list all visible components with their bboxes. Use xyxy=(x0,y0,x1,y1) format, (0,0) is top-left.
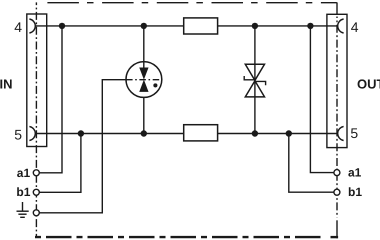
svg-text:5: 5 xyxy=(14,126,22,142)
svg-text:b1: b1 xyxy=(348,185,362,199)
svg-text:IN: IN xyxy=(0,77,13,92)
svg-text:4: 4 xyxy=(351,19,359,35)
svg-text:a1: a1 xyxy=(17,166,31,180)
svg-text:4: 4 xyxy=(14,19,22,35)
svg-text:OUT: OUT xyxy=(357,77,380,92)
svg-text:a1: a1 xyxy=(348,166,362,180)
svg-text:5: 5 xyxy=(350,125,358,141)
svg-text:b1: b1 xyxy=(16,185,30,199)
